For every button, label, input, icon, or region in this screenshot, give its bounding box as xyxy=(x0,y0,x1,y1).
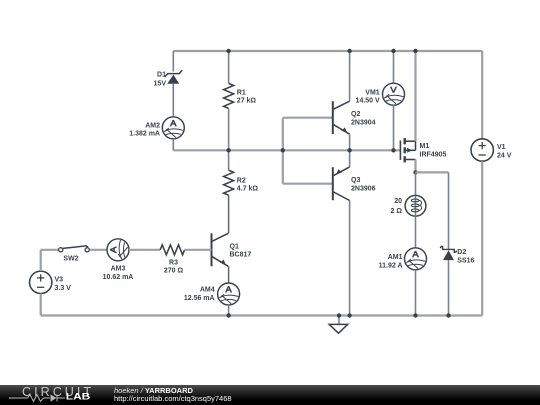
svg-text:24 V: 24 V xyxy=(497,152,512,159)
svg-text:R1: R1 xyxy=(237,89,246,96)
svg-text:AM2: AM2 xyxy=(145,122,160,129)
svg-text:20: 20 xyxy=(394,198,402,205)
svg-text:R3: R3 xyxy=(169,259,178,266)
svg-text:D2: D2 xyxy=(457,249,466,256)
svg-text:11.92 A: 11.92 A xyxy=(379,262,403,269)
svg-text:R2: R2 xyxy=(237,177,246,184)
svg-text:Q3: Q3 xyxy=(351,177,360,184)
svg-text:SW2: SW2 xyxy=(63,256,78,263)
svg-text:4.7 kΩ: 4.7 kΩ xyxy=(237,186,259,193)
svg-text:14.50 V: 14.50 V xyxy=(356,98,380,105)
svg-text:2 Ω: 2 Ω xyxy=(391,208,403,215)
svg-text:1.382 mA: 1.382 mA xyxy=(129,131,160,138)
svg-text:V1: V1 xyxy=(497,144,506,151)
svg-text:IRF4905: IRF4905 xyxy=(420,151,447,158)
svg-text:Q1: Q1 xyxy=(230,243,239,250)
svg-text:270 Ω: 270 Ω xyxy=(164,268,184,275)
svg-text:3.3 V: 3.3 V xyxy=(55,285,72,292)
svg-text:LAB: LAB xyxy=(66,392,91,402)
svg-text:AM4: AM4 xyxy=(200,287,215,294)
svg-text:V3: V3 xyxy=(55,277,64,284)
svg-text:VM1: VM1 xyxy=(365,89,380,96)
svg-text:12.56 mA: 12.56 mA xyxy=(184,295,215,302)
svg-text:2N3904: 2N3904 xyxy=(351,119,376,126)
svg-text:AM3: AM3 xyxy=(111,266,126,273)
svg-text:D1: D1 xyxy=(157,71,166,78)
svg-text:27 kΩ: 27 kΩ xyxy=(237,98,257,105)
svg-text:AM1: AM1 xyxy=(388,254,403,261)
svg-text:15V: 15V xyxy=(154,81,167,88)
svg-text:BC817: BC817 xyxy=(230,252,252,259)
svg-text:2N3906: 2N3906 xyxy=(351,185,376,192)
svg-text:SS16: SS16 xyxy=(457,257,474,264)
svg-text:10.62 mA: 10.62 mA xyxy=(103,274,134,281)
svg-text:Q2: Q2 xyxy=(351,111,360,118)
svg-text:M1: M1 xyxy=(420,143,430,150)
